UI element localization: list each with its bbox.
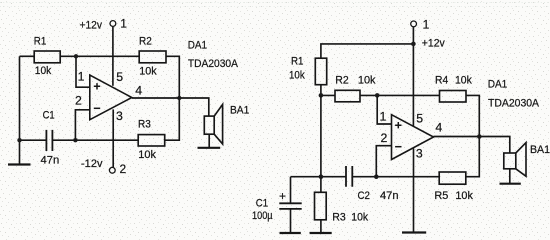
wire +12v supply to pin 5 (112, 27, 114, 86)
terminal 1 circle right (+12v) (411, 21, 417, 27)
svg-text:R1: R1 (291, 55, 304, 67)
wire pin 3 down to -12v terminal (112, 109, 114, 167)
svg-text:100µ: 100µ (252, 210, 273, 222)
svg-text:5: 5 (416, 111, 423, 125)
resistor R3 (138, 135, 165, 146)
capacitor C1 electrolytic plates (279, 203, 301, 209)
resistor R2 (139, 51, 166, 63)
wire output pin 4 to speaker right (434, 137, 510, 154)
wire C1 bottom to ground (290, 209, 292, 233)
node junction R1/R2 bias (319, 93, 324, 98)
wire right circuit top rail from terminal to R1 corner (321, 27, 414, 127)
op-amp minus input mark (94, 107, 100, 109)
svg-text:10k: 10k (139, 66, 157, 78)
ground (left rail) (8, 163, 31, 165)
svg-text:R2: R2 (335, 74, 348, 86)
svg-text:4: 4 (435, 121, 442, 135)
svg-text:R4: R4 (435, 74, 448, 86)
resistor R2 (335, 90, 360, 102)
wire right speaker to ground (509, 169, 511, 184)
svg-text:3: 3 (116, 109, 123, 123)
wire R1 bottom to divider row (320, 85, 322, 96)
node junction pin2 tap (374, 174, 379, 179)
wire pin 2 tap (376, 146, 391, 177)
wire C1 row right to R3 (52, 139, 139, 141)
resistor R3 vertical box (315, 192, 327, 220)
svg-text:1: 1 (423, 18, 430, 32)
wire bias vertical to R3 and C2 row (320, 95, 322, 192)
svg-text:+12v: +12v (80, 20, 103, 32)
svg-text:2: 2 (120, 162, 127, 176)
svg-text:TDA2030A: TDA2030A (488, 98, 540, 110)
wire left top rail (left circuit input/ground rail to R1) (20, 55, 35, 57)
svg-text:R5: R5 (434, 190, 448, 202)
wire C2 row left segment with corner down to C1 (291, 177, 347, 204)
resistor R1 (34, 51, 60, 63)
wire top node A from R1 right through pin1 tap to R2 and down right vertical to R3 right (61, 56, 180, 140)
svg-text:2: 2 (381, 131, 388, 145)
svg-text:5: 5 (116, 70, 123, 84)
wire C1 row left (20, 139, 47, 141)
svg-text:R3: R3 (332, 211, 346, 223)
svg-text:1: 1 (78, 69, 85, 83)
svg-text:+12v: +12v (422, 37, 445, 49)
svg-text:10k: 10k (455, 74, 472, 86)
svg-text:47n: 47n (41, 155, 60, 167)
node junction +12v (411, 42, 416, 47)
terminal 1 circle (+12v) (110, 21, 116, 27)
svg-text:C1: C1 (256, 197, 268, 209)
node junction C1 right / pin2 tap (73, 138, 77, 142)
svg-text:C1: C1 (43, 110, 55, 122)
svg-text:R2: R2 (139, 36, 152, 48)
wire R2 row (bias node to R4) (321, 94, 440, 96)
svg-text:BA1: BA1 (530, 144, 550, 156)
wire pin 3 to ground (413, 149, 415, 233)
wire pin 1 tap from node A (76, 56, 90, 87)
op-amp plus input mark (94, 83, 100, 89)
wire pin 1 tap (377, 95, 391, 124)
speaker BA1 box (204, 116, 214, 134)
svg-text:BA1: BA1 (230, 104, 249, 116)
op-amp DA1 triangle (90, 75, 132, 120)
node junction output / feedback (177, 96, 181, 100)
ground (R3) (310, 232, 332, 234)
svg-text:10k: 10k (289, 70, 305, 82)
capacitor C1 plates (46, 130, 52, 151)
node junction pin1 tap (375, 93, 380, 98)
ground (C1) (280, 232, 301, 234)
speaker BA1 cone (214, 104, 222, 144)
svg-text:10k: 10k (35, 65, 52, 77)
resistor R4 (440, 91, 467, 103)
resistor R1 vertical box (315, 58, 326, 84)
node junction at R1-R2 wire pin1 tap (74, 54, 78, 58)
terminal 2 circle (-12v) (109, 167, 115, 173)
op-amp DA1 right triangle (392, 115, 434, 160)
svg-text:-12v: -12v (81, 158, 103, 170)
capacitor C2 plates (346, 166, 352, 187)
svg-text:R3: R3 (138, 118, 151, 130)
svg-text:1: 1 (120, 16, 127, 30)
svg-text:C2: C2 (358, 190, 371, 202)
svg-text:10k: 10k (351, 211, 368, 223)
svg-text:DA1: DA1 (488, 79, 508, 91)
wire speaker to ground (208, 134, 210, 148)
wire R3 bottom to ground (320, 220, 322, 233)
svg-text:1: 1 (380, 110, 387, 124)
speaker BA1 right cone (516, 143, 526, 177)
wire R5 right up to output (466, 137, 480, 177)
ground (pin 3) (402, 231, 426, 233)
wire R4 right down to output (466, 95, 479, 136)
svg-text:2: 2 (75, 94, 82, 108)
wire C2 to pin2 node to R5 (352, 176, 439, 178)
ground (speaker BA1) (198, 147, 221, 149)
svg-text:10k: 10k (455, 190, 473, 202)
svg-text:3: 3 (416, 147, 423, 161)
wire left vertical rail (19, 56, 21, 164)
svg-text:10k: 10k (358, 74, 376, 86)
svg-text:4: 4 (135, 83, 142, 97)
wire output pin 4 to speaker (132, 98, 209, 116)
ground (speaker right) (500, 183, 521, 185)
op-amp minus input mark right (395, 146, 401, 148)
svg-text:+: + (279, 189, 286, 203)
wire pin 2 tap from C1 node (75, 110, 89, 140)
svg-text:10k: 10k (138, 149, 156, 161)
speaker BA1 right box (504, 153, 516, 169)
svg-text:TDA2030A: TDA2030A (188, 58, 239, 70)
node junction output right (477, 134, 482, 139)
node junction C2 row bias (319, 174, 324, 179)
op-amp plus input mark right (395, 122, 401, 128)
node junction on left rail at C1 row (17, 138, 21, 142)
svg-text:47n: 47n (380, 190, 399, 202)
svg-text:DA1: DA1 (188, 40, 207, 52)
resistor R5 (439, 172, 466, 184)
svg-text:R1: R1 (34, 36, 47, 48)
